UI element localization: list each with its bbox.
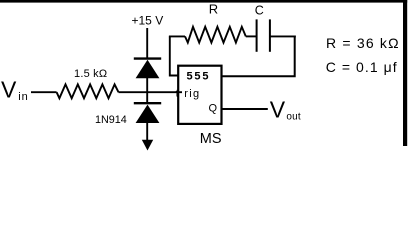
wire D1 to junction to D2: [146, 78, 148, 104]
svg-text:R = 36 kΩ: R = 36 kΩ: [326, 35, 400, 51]
svg-text:R: R: [209, 2, 218, 17]
svg-text:Q: Q: [209, 102, 218, 114]
wire +15V to D1: [146, 28, 148, 58]
svg-text:1.5 kΩ: 1.5 kΩ: [74, 68, 107, 80]
svg-text:555: 555: [187, 71, 211, 83]
resistor R: [185, 2, 246, 43]
svg-text:+15 V: +15 V: [132, 13, 164, 27]
svg-text:C: C: [255, 4, 264, 18]
timer U1 555 monostable box: [178, 66, 221, 124]
wire Q output: [222, 108, 268, 110]
svg-text:in: in: [18, 91, 28, 103]
svg-text:C = 0.1 μf: C = 0.1 μf: [326, 59, 398, 75]
wire D2 to negative supply arrow: [146, 123, 148, 141]
wire R1 to 555 trig input: [119, 91, 183, 93]
node Vin: [1, 77, 29, 103]
diode D2 (1N914 clamp to negative rail): [134, 103, 161, 123]
wire R to C: [246, 35, 257, 37]
wire right vertical down and feedback return into 555: [222, 36, 295, 77]
negative supply arrow: [142, 140, 153, 151]
wire top left horizontal to resistor R: [169, 35, 185, 37]
svg-text:out: out: [286, 112, 301, 123]
svg-text:V: V: [1, 77, 17, 103]
wire feedback left vertical down to 555 left side: [170, 36, 179, 75]
svg-text:V: V: [270, 96, 286, 122]
wire Vin to R1: [31, 91, 57, 93]
svg-text:t rig: t rig: [176, 88, 201, 100]
capacitor C: [255, 4, 270, 52]
svg-text:1N914: 1N914: [95, 114, 127, 126]
node Vout: [270, 96, 301, 122]
svg-text:MS: MS: [200, 131, 222, 147]
resistor R1 1.5 kOhm: [57, 68, 119, 98]
diode D1 (1N914 clamp to +15 V): [134, 59, 161, 79]
wire C right plate to right vertical: [270, 35, 296, 37]
